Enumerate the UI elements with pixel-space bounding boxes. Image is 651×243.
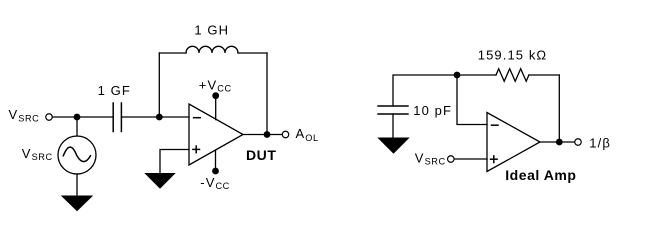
svg-text:DUT: DUT	[246, 147, 276, 163]
capacitor C1 value label 1 GF	[98, 83, 131, 98]
wire J4 down to op-amp U2 inverting input	[457, 75, 487, 125]
Ideal Amp label	[505, 167, 576, 183]
ground G3 below C2	[379, 138, 409, 153]
svg-text:1 GF: 1 GF	[98, 83, 131, 98]
wire J3 to terminal T2	[267, 134, 282, 136]
terminal T1 VSRC input	[46, 114, 53, 121]
op-amp U2 triangle	[487, 113, 540, 172]
terminal T3 VSRC right	[448, 156, 455, 163]
junction J5	[556, 139, 563, 146]
op-amp U2 plus pin mark	[491, 156, 498, 163]
junction J2	[156, 114, 163, 121]
junction J4	[454, 72, 461, 79]
resistor R1	[496, 69, 529, 82]
wire right circuit top left corner to junction J4	[393, 75, 457, 106]
DUT label	[246, 147, 276, 163]
wire VS1 to ground	[76, 174, 78, 196]
junction J3	[264, 131, 271, 138]
terminal T4 1/beta output	[575, 139, 582, 146]
inductor L1 value label 1 GH	[194, 23, 229, 38]
op-amp U1 minus pin mark	[194, 117, 201, 119]
wire op-amp U1 plus input to ground G2	[160, 150, 189, 174]
capacitor C2 value label 10 pF	[413, 103, 452, 118]
wire feedback right down to output junction J5	[558, 75, 560, 142]
wire J2 up to feedback inductor	[158, 53, 160, 117]
node VSRC label (left circuit input)	[9, 107, 40, 123]
junction J1	[74, 114, 81, 121]
source VS1 VSRC label	[22, 146, 53, 162]
source VS1 sine generator	[58, 136, 96, 174]
op-amp U1 triangle	[189, 104, 243, 165]
wire op-amp U1 output to junction J3	[243, 134, 267, 136]
-VCC supply label	[200, 175, 230, 191]
node VSRC label (right circuit)	[415, 150, 446, 166]
wire J1 to capacitor C1	[77, 116, 113, 118]
wire J5 to terminal T4	[559, 141, 575, 143]
wire feedback right down to output junction J3	[266, 53, 268, 135]
wire T3 to op-amp U2 plus input	[454, 158, 487, 160]
node 1/beta label	[589, 135, 611, 150]
capacitor C1	[113, 103, 121, 132]
svg-text:Ideal Amp: Ideal Amp	[505, 167, 576, 183]
wire J2 to op-amp U1 inverting input	[159, 116, 189, 118]
inductor L1	[186, 46, 238, 53]
wire resistor R1 to feedback right corner	[529, 74, 559, 76]
node AOL label	[296, 126, 319, 143]
resistor R1 value label 159.15 kOhm	[478, 48, 548, 63]
wire op-amp U2 output to junction J5	[540, 141, 559, 143]
svg-text:1/β: 1/β	[589, 135, 611, 150]
wire J4 to resistor R1	[457, 74, 496, 76]
ground below VS1	[62, 196, 92, 211]
op-amp U2 minus pin mark	[492, 124, 499, 126]
wire C2 to ground G3	[392, 114, 394, 138]
wire feedback top left to inductor	[159, 52, 186, 54]
svg-text:10 pF: 10 pF	[413, 103, 452, 118]
svg-text:1 GH: 1 GH	[194, 23, 229, 38]
terminal T2 AOL output	[282, 131, 289, 138]
+VCC supply label	[199, 77, 232, 93]
-VCC supply pin dot and wire	[215, 150, 217, 171]
+VCC supply pin dot and wire	[212, 92, 219, 99]
svg-text:159.15 kΩ: 159.15 kΩ	[478, 48, 548, 63]
wire J1 down to source VS1	[76, 117, 78, 136]
capacitor C2	[378, 106, 408, 114]
wire T1 to junction J1	[52, 116, 77, 118]
ground G2 at plus input	[146, 174, 175, 189]
wire C1 to junction J2	[121, 116, 159, 118]
wire inductor to feedback right corner	[238, 52, 267, 54]
op-amp U1 plus pin mark	[193, 146, 200, 153]
